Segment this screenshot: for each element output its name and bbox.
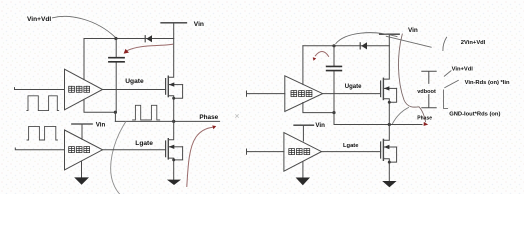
svg-text:Ugate: Ugate	[345, 84, 362, 90]
annotation small arc at phase node	[393, 108, 409, 124]
leader arc from Vin+Vdl to boot node	[53, 16, 115, 36]
driver U3 label 驱动器	[291, 91, 312, 97]
svg-text:Vin: Vin	[315, 122, 325, 129]
wire U1 bottom rail	[84, 99, 115, 112]
wire Lgate (U2 output to Q2 gate)	[103, 149, 166, 151]
pulse waveform P3 (above lower input wire)	[27, 126, 57, 140]
wire input lower right (to U4)	[247, 149, 284, 154]
capacitor C2 (bootstrap cap right)	[327, 46, 342, 113]
mark small x between circuits	[236, 115, 239, 118]
wire cap bottom to phase rail	[114, 112, 116, 121]
node boot right (junction dot)	[332, 44, 335, 47]
leader 2Vin+Vdl	[443, 37, 447, 50]
driver U4 label 驱动器	[289, 149, 310, 155]
annotation swoop from Vin to Phase	[398, 34, 425, 122]
pulse waveform P1 (below upper input wire)	[27, 96, 59, 111]
node phase right (junction dot)	[388, 123, 391, 126]
diode D2 (bootstrap diode right)	[360, 42, 367, 49]
power Vin T-bar (above U2)	[72, 124, 92, 139]
wire U3 top rail	[302, 46, 304, 85]
node cap-bottom (junction dot)	[114, 111, 117, 114]
leader Vin-Rds(on)*Iin with bracket	[444, 80, 459, 108]
ground U2 (stem and symbol)	[74, 161, 89, 185]
svg-text:Vin: Vin	[408, 27, 418, 34]
wire boot line right	[303, 45, 389, 47]
wire U3 bottom rail	[303, 103, 334, 113]
transistor Q1 (upper MOSFET)	[166, 23, 183, 122]
wire input lower (to U2)	[15, 148, 64, 150]
annotation C-curve (bottom middle)	[111, 122, 126, 194]
transistor Q3 (upper MOSFET right)	[381, 34, 397, 124]
red arrow J-arc to Phase	[187, 125, 216, 186]
annotation arc from boot node to Vin label	[336, 33, 397, 44]
wire input upper right (to U3)	[247, 91, 285, 96]
power Vin T-bar (top right circuit)	[380, 33, 400, 35]
op-amp driver U1 (upper left, triangle)	[65, 69, 103, 110]
driver U2 label 驱动器	[69, 147, 90, 153]
capacitor C1 (bootstrap cap)	[109, 39, 124, 113]
op-amp driver U2 (lower left, triangle)	[65, 130, 103, 170]
svg-text:Vin-Rds (on) *Iin: Vin-Rds (on) *Iin	[465, 80, 510, 86]
wire Lgate right (U4 to Q4 gate)	[322, 151, 381, 153]
red arrowhead at phase rail end	[424, 122, 429, 126]
wire boot line (node to Vin stem)	[84, 38, 174, 40]
pulse waveform P2 (Ugate, on phase rail)	[133, 105, 160, 120]
svg-text:vdboot: vdboot	[417, 89, 436, 95]
transistor Q4 (lower MOSFET right)	[381, 125, 397, 182]
svg-text:Lgate: Lgate	[343, 143, 359, 149]
svg-text:2Vin+Vdl: 2Vin+Vdl	[461, 40, 486, 46]
wire phase rail left	[115, 120, 219, 122]
svg-text:Phase: Phase	[199, 114, 218, 121]
node cap bottom right (junction dot)	[332, 111, 335, 114]
ground Q2 (symbol)	[167, 180, 181, 185]
red arrow into C1 (charging current)	[124, 44, 173, 53]
ground U4 (stem and symbol)	[296, 162, 310, 186]
svg-text:Vin: Vin	[96, 122, 106, 129]
diode D1 (bootstrap diode)	[145, 35, 152, 42]
ground Q4 (symbol)	[382, 181, 396, 187]
svg-text:Vin: Vin	[194, 21, 204, 28]
red arrow into C2	[313, 52, 329, 61]
label vdboot with I-beam	[417, 71, 436, 108]
node boot (junction dot)	[114, 37, 117, 40]
svg-text:Lgate: Lgate	[135, 140, 153, 147]
svg-text:GND-Iout*Rds (on): GND-Iout*Rds (on)	[449, 112, 500, 118]
annotation diagonal to 2Vin+Vdl	[386, 36, 431, 47]
wire to phase rail right	[333, 113, 335, 125]
op-amp driver U3 (upper right, triangle)	[285, 76, 323, 112]
op-amp driver U4 (lower right, triangle)	[284, 133, 322, 172]
svg-text:Vin+Vdl: Vin+Vdl	[452, 67, 474, 73]
transistor Q2 (lower MOSFET)	[166, 121, 183, 179]
power Vin T-bar (above U4)	[294, 125, 314, 141]
driver U1 label 驱动器	[69, 86, 90, 92]
wire phase rail right	[334, 124, 422, 126]
leader Vin+Vdl	[444, 71, 451, 76]
wire Ugate right (U3 to Q3 gate)	[323, 93, 381, 95]
wire input upper (to U1)	[15, 88, 65, 90]
wire U1 top rail (to boot node)	[83, 39, 85, 80]
power Vin T-bar (top left circuit)	[161, 22, 187, 24]
svg-text:Vin+Vdl: Vin+Vdl	[27, 16, 51, 23]
node phase (junction dot)	[172, 120, 175, 123]
svg-text:Ugate: Ugate	[125, 78, 144, 85]
wire Ugate (U1 output to Q1 gate)	[103, 89, 166, 91]
